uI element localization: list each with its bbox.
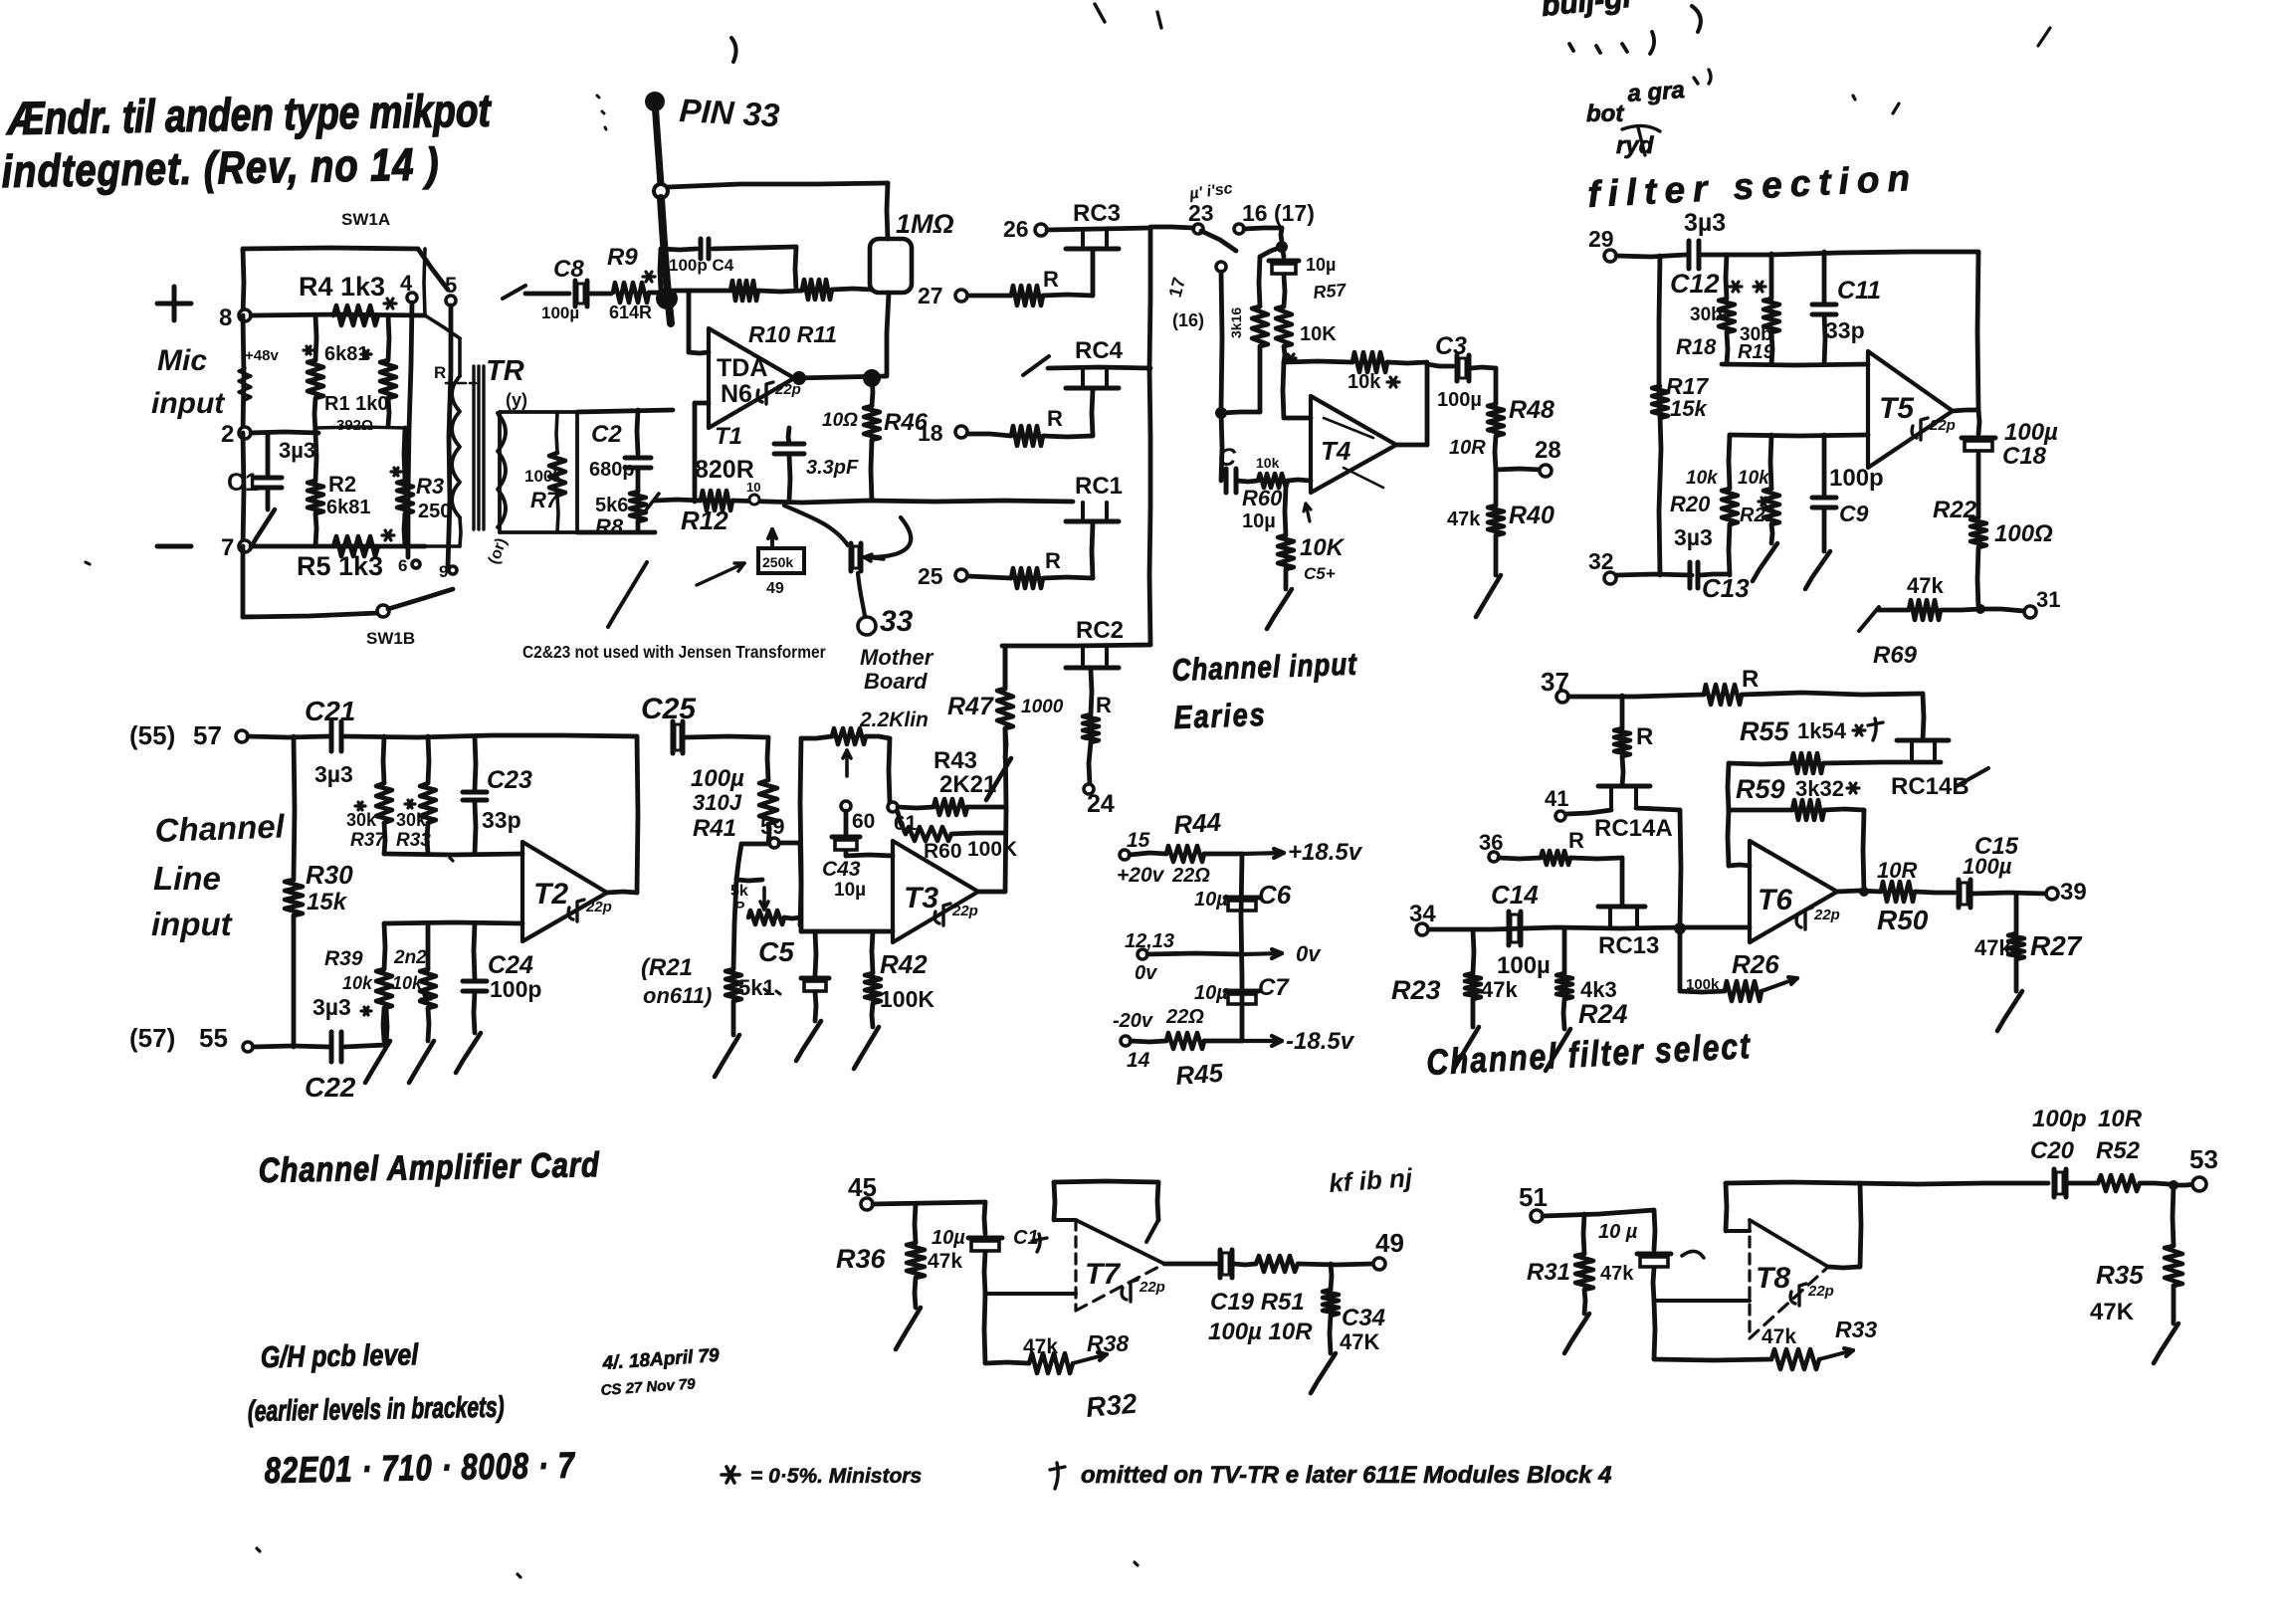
node 10 [749, 495, 759, 505]
scribble b [1569, 32, 1654, 54]
terminal 53 [2192, 1177, 2206, 1191]
svg-text:R48: R48 [1509, 396, 1555, 424]
wire T6 minus [1728, 810, 1729, 866]
svg-text:+48v: +48v [245, 347, 279, 364]
svg-text:820R: 820R [695, 456, 754, 484]
pot 2.2Klin [801, 736, 832, 738]
curvy wire to 33 [784, 506, 848, 545]
svg-text:(earlier levels in brackets): (earlier levels in brackets) [248, 1391, 505, 1428]
svg-text:22p: 22p [1807, 1283, 1834, 1300]
svg-text:C23: C23 [487, 766, 532, 794]
svg-text:C5+: C5+ [1304, 564, 1336, 583]
svg-text:250k: 250k [762, 554, 793, 570]
svg-text:36: 36 [1479, 830, 1503, 855]
svg-text:3µ3: 3µ3 [312, 994, 351, 1020]
wire sw vert a [408, 303, 412, 557]
wire left low [243, 433, 244, 546]
resistor 5k1 [733, 880, 736, 969]
op-amp T2 [522, 842, 607, 941]
resistor R to 27 [1043, 295, 1093, 296]
svg-text:10µ: 10µ [932, 1227, 965, 1249]
svg-text:C2&23 not used with Jensen Tra: C2&23 not used with Jensen Transformer [522, 642, 826, 662]
wire RC1 row left [732, 501, 1073, 503]
op-amp T6 [1750, 841, 1837, 942]
svg-text:4: 4 [400, 271, 413, 296]
svg-text:10Ω: 10Ω [822, 410, 858, 431]
svg-text:2K21: 2K21 [939, 771, 996, 798]
resistor 47k R69 [1975, 604, 1985, 614]
svg-text:Channel: Channel [154, 807, 286, 849]
svg-text:3.3pF: 3.3pF [806, 457, 859, 479]
svg-text:Channel Amplifier Card: Channel Amplifier Card [258, 1145, 600, 1190]
svg-text:C5: C5 [758, 936, 794, 967]
svg-text:100µ: 100µ [691, 765, 744, 792]
comp T7 [1122, 1280, 1138, 1302]
terminal 59 [769, 838, 779, 848]
op-amp T3 [893, 841, 978, 942]
resistor 30k R37 [383, 736, 384, 783]
svg-text:C9: C9 [1839, 501, 1869, 526]
terminal 31 [1980, 609, 2024, 611]
junction dot [1674, 922, 1686, 934]
svg-text:18: 18 [918, 420, 943, 446]
svg-text:omitted on TV-TR e later 611E: omitted on TV-TR e later 611E Modules Bl… [1081, 1462, 1611, 1489]
wire plus bar T3 [801, 929, 893, 934]
wire 17 row [1221, 412, 1260, 413]
wire right col [1977, 252, 1978, 410]
svg-text:bot: bot [1586, 101, 1624, 127]
fet RC13 [1598, 905, 1645, 910]
resistor 30b a [1719, 299, 1735, 332]
svg-text:0v: 0v [1296, 941, 1322, 966]
svg-text:R43: R43 [933, 747, 977, 774]
terminal 7 [239, 540, 251, 552]
comp T6 [1796, 908, 1812, 929]
output junctions [792, 371, 806, 385]
stray mark [597, 96, 606, 129]
stray mark [731, 38, 736, 62]
capacitor 3p3 [774, 442, 804, 447]
wire RC14A right [1636, 808, 1680, 810]
svg-text:31: 31 [2036, 587, 2060, 612]
terminal 18 [955, 426, 967, 438]
secondary box [500, 410, 577, 414]
svg-text:R52: R52 [2096, 1137, 2141, 1164]
svg-text:R8: R8 [595, 514, 624, 539]
svg-text:T5: T5 [1879, 392, 1915, 425]
svg-text:N6: N6 [721, 380, 752, 408]
svg-text:47k: 47k [928, 1250, 962, 1273]
stray mark [1095, 4, 1161, 28]
svg-text:R60: R60 [1242, 486, 1283, 510]
svg-text:5k6: 5k6 [595, 495, 628, 516]
svg-text:R38: R38 [1087, 1330, 1129, 1356]
capacitor 100p [1822, 435, 1827, 496]
thick lead from pin33 [655, 101, 661, 185]
resistor R3 [397, 481, 413, 513]
svg-text:R35: R35 [2096, 1260, 2144, 1290]
svg-text:30k: 30k [346, 810, 377, 830]
wire left col [1659, 256, 1661, 575]
resistor R par [380, 360, 396, 398]
svg-text:R18: R18 [1676, 334, 1717, 359]
svg-text:R33: R33 [1835, 1317, 1877, 1342]
svg-text:SW1A: SW1A [341, 210, 390, 229]
svg-text:R: R [1096, 693, 1112, 717]
svg-text:C20: C20 [2030, 1137, 2075, 1164]
wire minus input [687, 291, 692, 352]
svg-text:45: 45 [848, 1172, 877, 1202]
svg-text:T8: T8 [1756, 1262, 1790, 1295]
svg-text:100µ: 100µ [541, 304, 579, 322]
wire plus input [695, 401, 709, 406]
pot 5k [762, 888, 766, 910]
capacitor 10u T7 [984, 1202, 985, 1234]
svg-text:49: 49 [766, 580, 784, 597]
svg-text:kf ib nj: kf ib nj [1328, 1162, 1413, 1198]
svg-text:3µ3: 3µ3 [279, 438, 315, 463]
svg-text:10K: 10K [1300, 534, 1346, 561]
wire node7 row [251, 544, 425, 549]
pot 250k [758, 548, 804, 573]
svg-text:22p: 22p [1929, 417, 1956, 434]
svg-text:22p: 22p [1813, 907, 1840, 923]
resistor R43 2K21 [898, 807, 933, 808]
resistor 10k R40b [426, 923, 431, 969]
svg-text:14: 14 [1127, 1049, 1150, 1072]
svg-text:47k: 47k [1447, 508, 1481, 530]
connector cap C17 [849, 543, 854, 571]
terminal 33 [858, 617, 876, 635]
svg-text:(55): (55) [129, 720, 175, 750]
wire plus bar [384, 922, 522, 923]
svg-text:C24: C24 [488, 951, 533, 979]
minus sign [157, 544, 191, 549]
svg-text:R33: R33 [396, 830, 431, 851]
svg-text:10µ: 10µ [1242, 510, 1276, 532]
svg-text:41: 41 [1545, 786, 1568, 811]
left branch [1260, 247, 1282, 257]
svg-text:60: 60 [852, 810, 875, 833]
svg-text:T4: T4 [1321, 436, 1351, 466]
svg-text:R40: R40 [1509, 502, 1555, 529]
resistor R to 25 [1043, 577, 1093, 578]
capacitor C4 [699, 239, 704, 259]
terminal 28 [1496, 469, 1541, 470]
terminal 15 [1120, 850, 1130, 860]
op-amp T1 [709, 328, 794, 428]
svg-text:R12: R12 [681, 506, 728, 535]
svg-text:C11: C11 [1837, 277, 1881, 304]
wire 51 row [1543, 1210, 1654, 1216]
wire T7 in [985, 1292, 1076, 1296]
svg-text:22Ω: 22Ω [1165, 1006, 1204, 1028]
svg-text:33: 33 [880, 605, 914, 638]
resistor R40 47k [1494, 470, 1499, 506]
terminal 51 [1531, 1210, 1543, 1222]
svg-text:10k: 10k [1738, 468, 1770, 489]
terminal 24 [1084, 784, 1094, 794]
svg-text:1MΩ: 1MΩ [896, 209, 954, 239]
svg-text:100k: 100k [524, 467, 562, 486]
op-amp T5 [1868, 351, 1953, 468]
svg-text:82E01 · 710 · 8008 · 7: 82E01 · 710 · 8008 · 7 [264, 1444, 575, 1490]
svg-text:R: R [1047, 406, 1063, 431]
svg-text:100µ: 100µ [1963, 854, 2012, 879]
svg-text:= 0·5%. Ministors: = 0·5%. Ministors [750, 1465, 922, 1488]
svg-text:47k: 47k [1600, 1263, 1634, 1285]
resistor R27 47k [2014, 894, 2019, 933]
resistor R35 47K [2173, 1185, 2174, 1246]
capacitor C5 [815, 931, 816, 975]
resistor 10K gnd [1285, 488, 1286, 535]
resistor 30b b [1769, 254, 1774, 299]
svg-text:R50: R50 [1877, 905, 1929, 935]
wire sw right vert [424, 249, 425, 315]
resistor R23 47k [1473, 929, 1474, 973]
svg-text:22p: 22p [1139, 1279, 1165, 1296]
svg-text:on611): on611) [643, 983, 712, 1008]
svg-text:47k: 47k [1762, 1325, 1796, 1348]
resistor R34 47K [1331, 1264, 1332, 1290]
terminal 39 [2046, 888, 2058, 900]
main wire 34 row [1427, 927, 1750, 929]
svg-text:R: R [1045, 548, 1061, 573]
svg-text:1000: 1000 [1021, 697, 1064, 717]
op-amp T8 skewed [1750, 1220, 1828, 1267]
svg-text:RC4: RC4 [1075, 337, 1124, 364]
stray dots [86, 562, 1138, 1577]
svg-text:R21: R21 [1740, 505, 1776, 526]
wire R59 down [1863, 810, 1864, 892]
terminal 60 [841, 801, 851, 811]
svg-text:10 µ: 10 µ [1598, 1221, 1638, 1243]
svg-text:51: 51 [1519, 1182, 1548, 1212]
wire 57 row [248, 736, 328, 737]
svg-text:C3: C3 [1435, 332, 1467, 360]
svg-text:input: input [151, 906, 234, 942]
resistor 10k star [1352, 352, 1387, 372]
svg-text:R: R [434, 363, 446, 382]
svg-text:R27: R27 [2030, 930, 2083, 961]
svg-text:10µ: 10µ [1194, 982, 1228, 1004]
svg-text:100K: 100K [967, 838, 1017, 861]
capacitor C24 100p [474, 923, 475, 979]
label star note [722, 1473, 739, 1477]
svg-text:C13: C13 [1702, 573, 1750, 603]
svg-text:Mother: Mother [860, 645, 934, 670]
svg-text:16 (17): 16 (17) [1242, 200, 1315, 226]
resistor R59 [1728, 763, 1729, 810]
comp T2 [568, 900, 584, 921]
wire left mid [243, 315, 244, 433]
wire box bottom right [577, 530, 655, 535]
resistor R1 [308, 360, 323, 398]
svg-text:57: 57 [193, 720, 222, 750]
svg-text:R60: R60 [924, 840, 962, 863]
svg-text:47k: 47k [1907, 573, 1944, 598]
svg-text:C34: C34 [1342, 1305, 1385, 1331]
svg-text:indtegnet. (Rev, no 14 ): indtegnet. (Rev, no 14 ) [1, 138, 440, 197]
svg-text:10k: 10k [1347, 371, 1381, 393]
svg-text:10K: 10K [1300, 323, 1337, 345]
junction ring [654, 184, 668, 198]
terminal 6 [412, 560, 420, 568]
svg-text:R1 1k0: R1 1k0 [324, 393, 389, 415]
terminal 8 [239, 309, 251, 321]
terminal 61 [888, 802, 898, 812]
svg-text:9: 9 [439, 562, 448, 581]
svg-text:ryd: ryd [1616, 132, 1655, 159]
capacitor C22 [329, 1032, 334, 1062]
wire pin33 to 1M [668, 183, 888, 187]
svg-text:37: 37 [1541, 667, 1569, 697]
terminal 4 [407, 293, 417, 303]
svg-text:2.2Klin: 2.2Klin [859, 709, 929, 731]
svg-text:32: 32 [1588, 548, 1614, 574]
svg-text:59: 59 [760, 814, 784, 839]
svg-text:R55: R55 [1740, 716, 1790, 746]
wire 37 row [1568, 695, 1704, 697]
capacitor C19 [1218, 1250, 1223, 1278]
svg-text:R5 1k3: R5 1k3 [297, 551, 383, 581]
svg-text:SW1B: SW1B [366, 629, 415, 648]
wire T3 out col2 [1005, 728, 1006, 892]
resistor R50 10R [1881, 882, 1915, 902]
switch SW1B [377, 605, 389, 617]
svg-text:30b: 30b [1690, 304, 1723, 325]
resistor 30k R33 [428, 736, 429, 783]
svg-text:RC3: RC3 [1073, 200, 1121, 227]
svg-text:7: 7 [221, 534, 234, 561]
terminal 29 [1604, 250, 1616, 262]
svg-text:250: 250 [418, 501, 451, 522]
resistor R10 [730, 281, 758, 301]
svg-text:25: 25 [918, 563, 943, 589]
svg-text:RC14A: RC14A [1594, 815, 1673, 842]
arrow -18.5v [1242, 1039, 1282, 1043]
svg-text:26: 26 [1003, 216, 1029, 242]
wire T3 out col [1003, 646, 1008, 689]
svg-text:R2: R2 [328, 472, 356, 497]
transformer TR secondary [498, 413, 506, 527]
svg-text:Mic: Mic [157, 344, 207, 377]
junction 17 [1216, 262, 1226, 272]
wire 59 jog [736, 844, 741, 880]
svg-text:C22: C22 [305, 1072, 356, 1103]
svg-text:100µ: 100µ [2004, 419, 2058, 446]
svg-text:R22: R22 [1933, 497, 1977, 523]
resistor R36 47k [915, 1204, 916, 1243]
svg-text:T3: T3 [904, 882, 938, 914]
svg-text:T6: T6 [1758, 884, 1792, 916]
capacitor C15 [1957, 880, 1962, 908]
wire 45 row [873, 1202, 985, 1204]
resistor R47 1000 [1003, 646, 1008, 689]
svg-text:Earies: Earies [1173, 698, 1267, 736]
transformer TR primary [452, 376, 460, 517]
resistor R7 [549, 453, 565, 496]
svg-text:R44: R44 [1172, 807, 1222, 840]
capacitor C2 [637, 410, 638, 454]
svg-text:100µ 10R: 100µ 10R [1208, 1319, 1313, 1345]
wire pot right col [889, 738, 890, 802]
resistor R42 100K [872, 931, 873, 973]
PIN 33 terminal [645, 92, 665, 111]
capacitor C1 [266, 433, 271, 476]
svg-text:C14: C14 [1491, 880, 1539, 910]
resistor R60 100K [898, 812, 906, 834]
svg-text:100p: 100p [2032, 1106, 2087, 1132]
svg-text:5k1: 5k1 [738, 975, 775, 1000]
svg-text:R: R [1043, 267, 1059, 292]
resistor R5 [333, 536, 378, 556]
svg-text:5k: 5k [730, 883, 748, 900]
svg-text:R10 R11: R10 R11 [748, 321, 837, 347]
svg-text:55: 55 [199, 1023, 228, 1053]
svg-text:(16): (16) [1172, 310, 1204, 330]
resistor R to 18 [1043, 436, 1093, 437]
svg-text:1k54: 1k54 [1797, 718, 1847, 743]
svg-text:a gra: a gra [1627, 77, 1686, 107]
thick stroke blob [661, 198, 671, 323]
resistor R21 10k [1770, 435, 1771, 489]
svg-text:C25: C25 [641, 693, 697, 725]
svg-text:22Ω: 22Ω [1171, 865, 1210, 887]
svg-text:R23: R23 [1391, 975, 1441, 1005]
wire T7 out [1164, 1262, 1216, 1267]
feedback 47k T7 [984, 1294, 985, 1363]
terminal 5 [446, 296, 456, 305]
capacitor C6 [1225, 896, 1259, 901]
terminal 25 [955, 569, 967, 581]
svg-text:10k: 10k [392, 973, 423, 993]
svg-text:3µ3: 3µ3 [1674, 524, 1713, 550]
wire T5 out [1953, 410, 1978, 411]
svg-text:R: R [1742, 666, 1759, 693]
resistor 1M box [870, 239, 912, 293]
svg-text:310J: 310J [693, 790, 742, 815]
wire node2 row [251, 432, 318, 433]
svg-text:Board: Board [864, 669, 928, 694]
wire between [758, 291, 802, 292]
svg-text:3k16: 3k16 [1228, 307, 1244, 338]
capacitor C18 100u [1978, 410, 1979, 434]
terminal 49 [1373, 1258, 1385, 1270]
comp T5 [1912, 418, 1928, 440]
capacitor C8 [525, 292, 569, 297]
svg-text:10k: 10k [342, 973, 373, 993]
svg-text:100µ: 100µ [1497, 952, 1551, 979]
svg-text:-20v: -20v [1113, 1010, 1154, 1032]
svg-text:R: R [1568, 828, 1584, 853]
terminal 34 [1416, 923, 1428, 935]
svg-text:5: 5 [445, 273, 457, 298]
svg-text:6: 6 [398, 556, 407, 575]
svg-text:30k: 30k [396, 810, 427, 830]
svg-text:C7: C7 [1258, 974, 1290, 1001]
op-amp T4 [1311, 396, 1396, 493]
arrow +18.5v [1242, 853, 1284, 854]
svg-text:3µ3: 3µ3 [1684, 209, 1726, 237]
svg-text:C12: C12 [1670, 269, 1720, 299]
wire T2 out [607, 892, 637, 893]
feedback loop T8 [1726, 1229, 1750, 1233]
svg-text:R37: R37 [350, 830, 386, 851]
svg-text:R69: R69 [1873, 642, 1918, 669]
wire minus row [1730, 435, 1868, 436]
capacitor 10u T8 [1654, 1210, 1655, 1250]
